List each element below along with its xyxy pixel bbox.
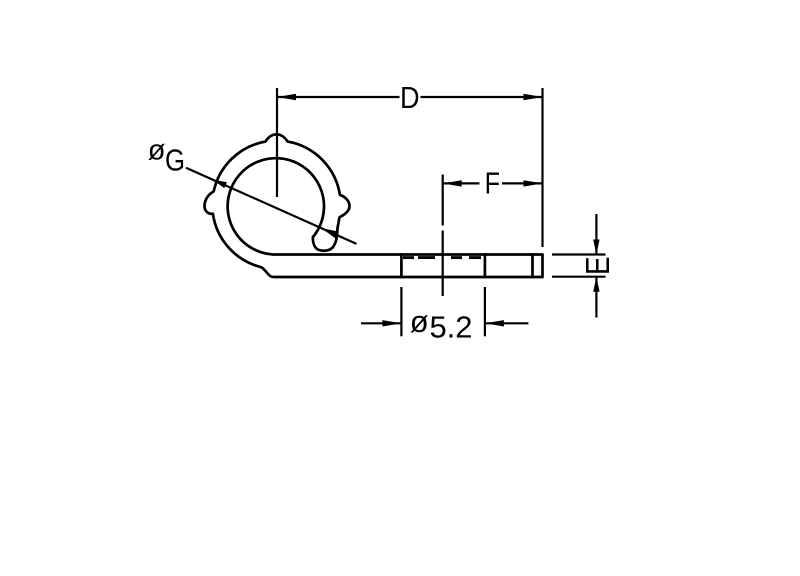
svg-text:E: E (579, 257, 616, 276)
svg-text:F: F (485, 166, 500, 201)
svg-text:G: G (165, 143, 185, 178)
svg-text:ø: ø (410, 304, 429, 339)
svg-text:ø: ø (148, 135, 166, 167)
svg-text:5.2: 5.2 (429, 309, 472, 344)
svg-text:D: D (400, 80, 420, 115)
